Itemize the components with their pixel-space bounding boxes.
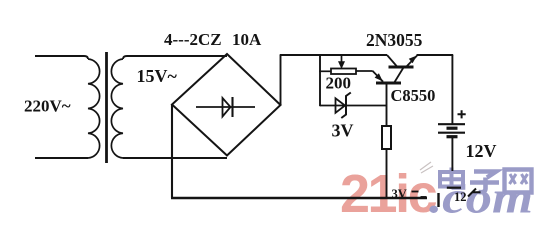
watermark scribble above c — [420, 162, 433, 173]
wire bridge left corner down to bottom rail — [171, 105, 173, 199]
wire C8550 base down to resistor — [386, 83, 388, 126]
bridge rectifier diamond — [172, 54, 281, 156]
potentiometer left lead — [319, 70, 331, 72]
battery BT1 plate long lower — [438, 132, 465, 134]
wire pot right end toward C8550 emitter — [356, 70, 372, 72]
svg-text:10A: 10A — [232, 30, 262, 49]
battery BT1 plate long top — [438, 123, 465, 125]
potentiometer wiper arrow from rail — [341, 55, 343, 62]
watermark char 电 — [440, 168, 464, 190]
transistor Q1 2N3055 emitter diagonal with arrow — [406, 56, 417, 67]
svg-text:2N3055: 2N3055 — [366, 30, 423, 50]
wire secondary top lead to bridge — [123, 56, 227, 59]
svg-text:.com: .com — [429, 173, 533, 219]
transformer core — [105, 52, 108, 163]
watermark char 子 — [470, 172, 499, 193]
battery minus terminal bar — [447, 187, 461, 189]
diode inside bridge: cathode bar — [231, 97, 233, 117]
top rail from 2N3055 emitter to battery — [417, 54, 454, 56]
wire down from rail to zener branch — [319, 55, 321, 106]
resistor R1 (vertical, unlabeled) — [382, 126, 391, 149]
battery BT1 plate short thick — [447, 127, 458, 130]
transistor Q2 C8550 base bar — [376, 82, 401, 85]
battery BT1 plate short thick lower — [447, 135, 458, 138]
bottom rail — [171, 197, 427, 199]
svg-text:200: 200 — [326, 74, 352, 93]
svg-text:12: 12 — [454, 190, 467, 204]
wire resistor to bottom rail — [386, 149, 388, 198]
top rail from bridge to 2N3055 collector — [280, 54, 387, 56]
transistor Q2 C8550 collector diagonal to Q1 base — [394, 68, 404, 84]
transistor Q1 2N3055 base bar — [389, 66, 414, 69]
slash mark after 12 — [468, 189, 481, 197]
svg-text:12V: 12V — [466, 141, 497, 161]
potentiometer 200: body — [331, 69, 356, 75]
dash after bottom 3V — [412, 191, 419, 193]
svg-text:3V: 3V — [332, 121, 354, 141]
zener diode D1 triangle — [336, 98, 346, 113]
zener diode D1 bent cathode bar — [341, 93, 351, 119]
zener diode lead line — [320, 105, 387, 107]
transformer primary bottom lead — [35, 157, 88, 159]
transformer secondary winding — [111, 59, 123, 158]
svg-text:15V~: 15V~ — [137, 66, 178, 86]
battery BT1 plus sign — [458, 110, 466, 118]
svg-text:4---2CZ: 4---2CZ — [164, 30, 222, 49]
transformer primary winding — [88, 59, 100, 158]
wire battery minus down — [451, 138, 453, 171]
watermark char 网 — [505, 170, 532, 193]
wire bridge right corner up — [280, 55, 282, 105]
diode inside bridge: lead line — [196, 106, 255, 108]
diode inside bridge: triangle — [223, 98, 231, 117]
wire secondary bottom lead to bridge bottom corner — [123, 157, 227, 159]
transformer primary top lead — [35, 56, 88, 59]
transistor Q2 C8550 emitter diagonal with arrow — [372, 71, 383, 82]
transistor Q1 2N3055 collector diagonal from rail — [387, 55, 397, 67]
svg-text:3V: 3V — [392, 187, 407, 201]
dark vertical stroke near .com — [437, 193, 439, 207]
bottom rail stub dash near watermark — [421, 196, 427, 198]
svg-text:220V~: 220V~ — [24, 97, 71, 116]
wire top rail down to battery + — [451, 55, 453, 124]
svg-text:C8550: C8550 — [391, 86, 436, 105]
